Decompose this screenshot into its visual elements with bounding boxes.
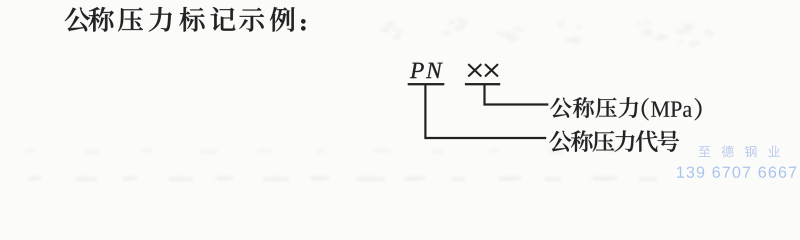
watermark 至德钢业 (699, 145, 780, 157)
text PN (410, 63, 443, 78)
label text 公称压力（MPa） (550, 97, 701, 120)
leader line ×× to 公称压力(MPa) (485, 84, 549, 104)
symbol ×× (468, 64, 498, 76)
watermark phone 139 6707 6667 (677, 166, 796, 177)
ghost bleed-through blobs top (380, 18, 714, 47)
ghost bleed-through marks mid row (25, 149, 618, 153)
title text 公称压力标记示例： (65, 7, 306, 32)
label text 公称压力代号 (549, 130, 679, 151)
underline under ×× (465, 83, 500, 85)
underline under PN (408, 83, 445, 85)
ghost bleed-through marks bottom edge (28, 177, 657, 181)
leader line PN to 公称压力代号 (425, 84, 546, 138)
